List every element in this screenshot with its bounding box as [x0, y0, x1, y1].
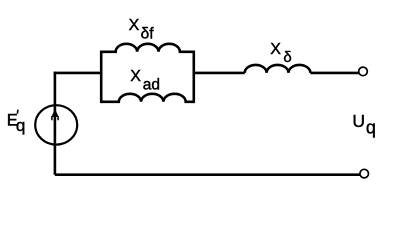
wire middle exit to series inductor	[194, 72, 245, 75]
label X_ad	[130, 68, 160, 93]
source E'q circle	[35, 105, 77, 144]
label E'q	[7, 111, 18, 129]
inductor X_delta (series)	[245, 65, 311, 73]
inductor X_deltaf (top branch humps)	[101, 44, 194, 52]
wire top-left horizontal into parallel box	[54, 72, 102, 75]
svg-text:δ: δ	[283, 49, 291, 66]
inductor X_ad (bottom branch humps)	[101, 94, 194, 102]
svg-text:q: q	[16, 116, 25, 135]
wire to top terminal	[310, 72, 359, 75]
label U_q	[352, 111, 376, 137]
source arrow head	[51, 109, 58, 117]
wire vertical from source node to bottom rail	[54, 72, 57, 175]
svg-text:X: X	[270, 41, 281, 58]
wire bottom rail	[55, 173, 360, 176]
source arrow barbs	[52, 116, 58, 120]
node box right edge	[193, 51, 196, 104]
svg-text:ad: ad	[143, 77, 160, 94]
svg-text:U: U	[352, 111, 365, 131]
svg-text:X: X	[129, 17, 140, 34]
svg-text:q: q	[366, 117, 376, 137]
node box left edge	[100, 51, 103, 104]
label X_delta	[270, 41, 292, 66]
terminal top	[359, 67, 368, 76]
apostrophe of E'q	[16, 110, 19, 114]
label X_deltaf	[129, 17, 155, 42]
svg-text:X: X	[130, 68, 141, 85]
svg-text:δf: δf	[141, 25, 155, 42]
terminal bottom	[360, 169, 369, 178]
